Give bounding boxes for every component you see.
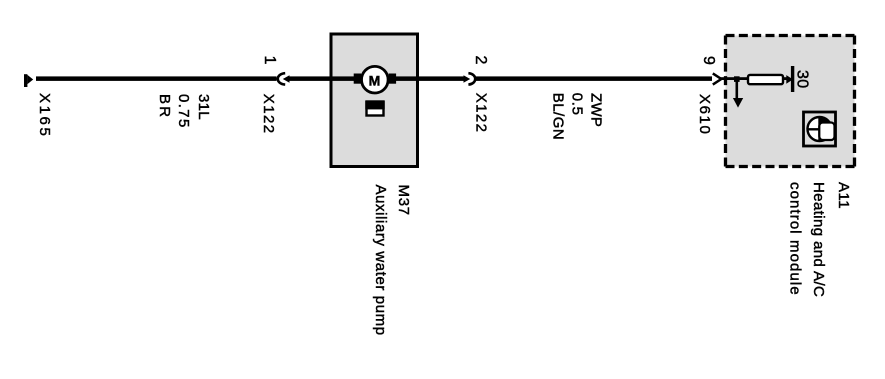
wire value label 31L [195, 94, 212, 120]
motor brush left [354, 74, 361, 84]
wire W1: X165 to X122 pin 1 [36, 76, 277, 81]
svg-text:X610: X610 [696, 94, 713, 135]
connector X122 pin 2 female [468, 73, 475, 84]
junction node [734, 76, 740, 82]
svg-text:Auxiliary water pump: Auxiliary water pump [372, 185, 389, 336]
svg-text:2: 2 [472, 56, 489, 65]
pin number 2 [472, 56, 489, 65]
svg-text:1: 1 [261, 56, 278, 65]
label X610 [696, 94, 713, 135]
wire: fuse to terminal 30 [783, 75, 793, 84]
label M37 [395, 185, 412, 216]
svg-text:Heating and A/C: Heating and A/C [810, 182, 827, 297]
wire value label BL/GN [550, 93, 567, 141]
svg-text:X165: X165 [36, 93, 53, 138]
svg-text:control module: control module [787, 182, 804, 296]
pin number 9 [700, 56, 717, 65]
svg-text:X122: X122 [260, 94, 277, 135]
label 30 [793, 70, 810, 88]
wire W2: X122 pin 2 to X610 pin 9 [475, 76, 712, 81]
label Heating and A/C [810, 182, 827, 297]
pin number 1 [261, 56, 278, 65]
label control module [787, 182, 804, 296]
wire value label 0.75 [175, 94, 192, 129]
connector X610 pin 9 female fork [713, 73, 722, 84]
svg-text:M37: M37 [395, 185, 412, 216]
wire inside A11: pin 9 to fuse [720, 77, 749, 80]
module A11 dashed box [726, 36, 855, 167]
terminal X165 [24, 74, 33, 87]
ground arrow inside A11 [733, 79, 743, 108]
pump symbol [365, 101, 384, 116]
svg-text:31L: 31L [195, 94, 212, 120]
connector X122 pin 1 female [278, 73, 285, 84]
connector X122 pin 1 male arrow [283, 75, 290, 82]
svg-text:ZWP: ZWP [588, 93, 605, 127]
fan / A-C icon [804, 112, 836, 146]
wire value label ZWP [588, 93, 605, 127]
svg-text:M: M [369, 72, 381, 88]
svg-text:A11: A11 [835, 182, 852, 209]
label A11 [835, 182, 852, 209]
wire value label 0.5 [568, 93, 585, 116]
svg-text:BR: BR [156, 94, 173, 119]
svg-text:X122: X122 [473, 93, 490, 134]
connector X122 pin 2 male arrow [464, 75, 471, 82]
motor symbol M (circle) [362, 66, 389, 93]
wire: X122 pin 1 to M37 [289, 76, 332, 81]
wire value label BR [156, 94, 173, 119]
svg-text:30: 30 [793, 70, 810, 88]
label X122 (pin 2 side) [473, 93, 490, 134]
fuse F (resistor symbol) [748, 75, 783, 84]
label X165 [36, 93, 53, 138]
wire inside M37 (right) [395, 76, 419, 81]
svg-text:0.5: 0.5 [568, 93, 585, 116]
label Auxiliary water pump [372, 185, 389, 336]
wire: M37 to X122 pin 2 [418, 76, 465, 81]
svg-text:0.75: 0.75 [175, 94, 192, 129]
label X122 (pin 1 side) [260, 94, 277, 135]
terminal 30 bar [791, 66, 794, 92]
svg-text:9: 9 [700, 56, 717, 65]
svg-text:BL/GN: BL/GN [550, 93, 567, 141]
wire inside M37 (left) [331, 76, 355, 81]
component box M37 [331, 34, 418, 167]
motor brush right [389, 74, 396, 84]
